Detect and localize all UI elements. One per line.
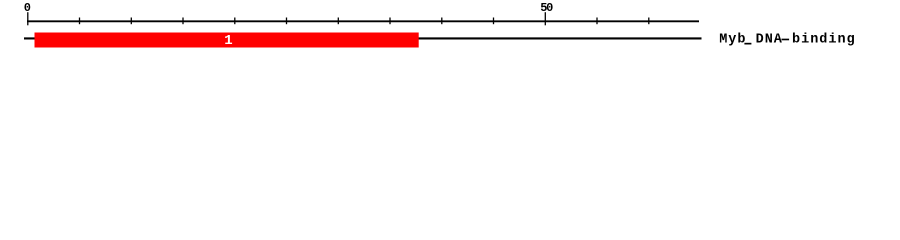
tick 45 [493,18,495,25]
tick 60 [648,18,650,25]
background [0,0,900,58]
tick 25 [286,18,288,25]
tick 40 [441,18,443,25]
major tick 50 [544,12,546,25]
ruler line [27,20,699,22]
tick 20 [234,18,236,25]
tick 35 [389,18,391,25]
tick 5 [79,18,81,25]
tick 55 [596,18,598,25]
protein backbone line [24,37,702,39]
major tick 0 [27,12,29,25]
svg-text:50: 50 [540,1,553,15]
tick 15 [182,18,184,25]
underscore of domain name [744,43,751,45]
svg-text:0: 0 [24,1,31,15]
domain box Myb_DNA-binding [35,33,419,48]
tick 10 [130,18,132,25]
tick 30 [337,18,339,25]
hyphen of domain name [782,39,790,41]
svg-text:1: 1 [224,33,232,49]
